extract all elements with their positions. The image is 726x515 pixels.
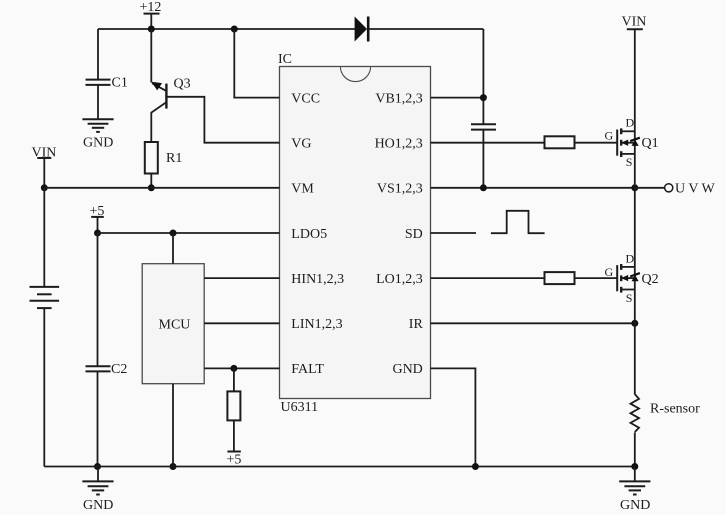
svg-text:D: D: [626, 252, 635, 266]
wire gate lead Q1: [575, 142, 618, 144]
svg-text:U V W: U V W: [675, 182, 715, 197]
node R-sensor/rail junction: [631, 463, 638, 470]
svg-text:GND: GND: [620, 498, 650, 513]
node C2/rail junction: [94, 463, 101, 470]
svg-text:G: G: [605, 265, 614, 279]
transistor Q1: [605, 116, 659, 170]
node VB junction: [480, 94, 487, 101]
wire gate lead Q2: [575, 277, 618, 279]
node R1/VM junction: [148, 184, 155, 191]
svg-text:G: G: [605, 129, 614, 143]
svg-text:R-sensor: R-sensor: [650, 402, 700, 417]
node VS/output junction: [631, 184, 638, 191]
svg-text:S: S: [626, 291, 633, 305]
SD pulse waveform: [491, 211, 545, 233]
svg-text:+5: +5: [227, 453, 242, 468]
wire MCU top: [172, 233, 174, 264]
svg-text:Q2: Q2: [642, 272, 659, 287]
svg-text:U6311: U6311: [281, 400, 319, 415]
node junction +12/rail: [148, 26, 155, 33]
node +5/LDO5 junction: [94, 230, 101, 237]
+5 supply under resistor: [227, 452, 242, 468]
wire bootstrap drop: [482, 29, 484, 124]
wire VCC connection: [234, 29, 279, 98]
svg-text:HO1,2,3: HO1,2,3: [375, 137, 423, 152]
node VS/bootstrap junction: [480, 184, 487, 191]
svg-text:VM: VM: [291, 182, 314, 197]
wire HIN line: [204, 277, 279, 279]
wire top rail left: [98, 28, 355, 30]
wire SD lead: [431, 232, 477, 234]
resistor R2 (FALT pull-up): [227, 368, 240, 451]
wire LO line: [431, 277, 545, 279]
svg-text:R1: R1: [166, 151, 182, 166]
svg-text:MCU: MCU: [159, 317, 191, 332]
node GND/rail junction: [472, 463, 479, 470]
svg-text:LIN1,2,3: LIN1,2,3: [291, 317, 342, 332]
svg-text:C2: C2: [111, 362, 127, 377]
svg-text:SD: SD: [405, 227, 423, 242]
wire VS line: [431, 187, 635, 189]
wire FALT line: [204, 367, 279, 369]
VIN right supply: [622, 15, 647, 30]
wire VM line: [44, 187, 279, 189]
wire Q3 base to VG: [166, 97, 279, 143]
ground bottom left: [82, 467, 113, 514]
svg-text:VG: VG: [291, 137, 311, 152]
svg-text:S: S: [626, 155, 633, 169]
transistor Q2: [605, 252, 659, 306]
svg-text:VS1,2,3: VS1,2,3: [377, 182, 423, 197]
wire main half-bridge line: [634, 29, 636, 394]
battery B1: [30, 188, 60, 467]
wire HO line: [431, 142, 545, 144]
transistor Q3: [151, 29, 190, 142]
svg-text:C1: C1: [112, 76, 128, 91]
svg-text:LO1,2,3: LO1,2,3: [376, 272, 423, 287]
output terminal U V W: [635, 182, 716, 197]
node junction VCC drop: [231, 26, 238, 33]
svg-text:GND: GND: [83, 136, 113, 151]
svg-text:IC: IC: [278, 52, 292, 67]
svg-text:VIN: VIN: [622, 15, 647, 30]
svg-text:D: D: [626, 116, 635, 130]
wire +5 down to C2: [97, 233, 99, 366]
node FALT/resistor junction: [230, 365, 237, 372]
wire GND pin to rail: [431, 368, 476, 466]
wire MCU bottom: [172, 384, 174, 467]
ground bottom right: [619, 467, 650, 514]
svg-text:IR: IR: [409, 317, 424, 332]
svg-text:HIN1,2,3: HIN1,2,3: [291, 272, 344, 287]
svg-text:LDO5: LDO5: [291, 227, 327, 242]
svg-text:Q3: Q3: [174, 77, 191, 92]
wire bottom rail: [44, 466, 635, 468]
+12 supply: [140, 0, 162, 29]
svg-text:VCC: VCC: [291, 91, 320, 106]
resistor R-sensor: [631, 394, 701, 466]
wire VB lead: [431, 97, 484, 99]
+5 supply left: [90, 204, 105, 233]
wire LDO5 line: [98, 232, 280, 234]
svg-text:GND: GND: [83, 498, 113, 513]
node MCU/rail junction: [170, 463, 177, 470]
svg-text:VB1,2,3: VB1,2,3: [375, 91, 422, 106]
capacitor C2: [86, 362, 128, 467]
capacitor C1: [86, 29, 128, 119]
svg-text:GND: GND: [392, 362, 422, 377]
capacitor bootstrap: [471, 124, 496, 188]
wire IR line: [431, 322, 635, 324]
resistor gate Q1: [545, 136, 575, 148]
node IR junction: [631, 320, 638, 327]
IC U6311: [278, 52, 431, 415]
wire LIN line: [204, 322, 279, 324]
ground under C1: [82, 119, 113, 150]
MCU box: [142, 264, 204, 384]
svg-text:Q1: Q1: [642, 136, 659, 151]
svg-text:FALT: FALT: [291, 362, 324, 377]
node VIN/VM junction: [41, 184, 48, 191]
diode D1: [355, 17, 484, 42]
resistor gate Q2: [545, 272, 575, 284]
node MCU/LDO5 junction: [170, 230, 177, 237]
VIN left supply: [32, 146, 57, 188]
resistor R1: [145, 142, 183, 188]
